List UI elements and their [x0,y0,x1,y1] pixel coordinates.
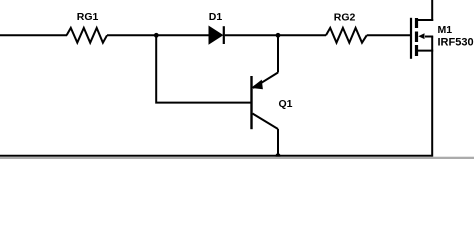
wire left input to RG1 [0,34,67,36]
wire RG1 to D1 [107,34,210,36]
node junction after RG1 [154,33,159,38]
svg-text:D1: D1 [209,11,223,23]
mosfet M1 [411,18,433,59]
node Q1 collector on rail [276,153,281,158]
svg-text:M1: M1 [438,24,453,36]
svg-text:Q1: Q1 [279,98,293,110]
wire M1 source to bottom rail [431,51,433,157]
canvas edge gray band at bottom [0,157,474,159]
wire Q1 collector to bottom rail [277,129,279,156]
resistor RG2 [326,28,367,43]
bottom rail wire [0,155,432,157]
wire RG2 to M1 gate [367,34,411,36]
wire D1 to RG2 [225,34,326,36]
transistor Q1 [252,73,279,130]
svg-text:RG1: RG1 [77,11,99,23]
wire Q1 emitter to node [277,35,279,72]
diode D1 [209,26,224,44]
svg-text:RG2: RG2 [334,11,356,23]
node junction after D1 [276,33,281,38]
svg-text:IRF530: IRF530 [438,36,474,48]
wire node to Q1 base [156,36,250,103]
resistor RG1 [67,28,107,43]
wire M1 drain up to top edge [431,0,433,21]
